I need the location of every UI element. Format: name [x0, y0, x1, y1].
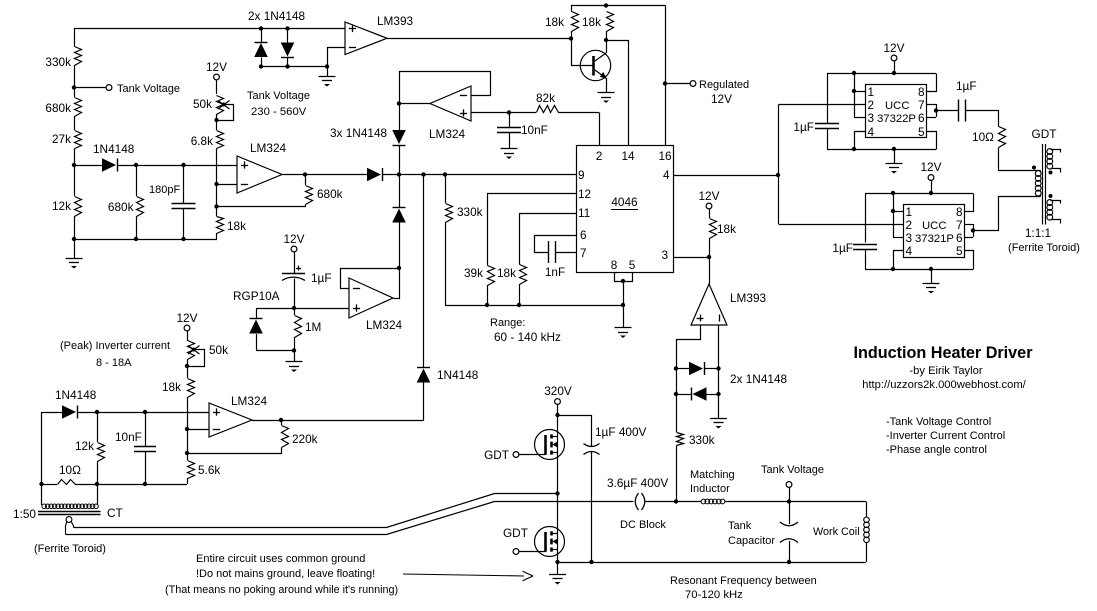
svg-text:3: 3 — [661, 248, 668, 262]
wire pin 11 — [519, 213, 576, 215]
svg-text:1µF: 1µF — [832, 241, 853, 255]
svg-text:1µF 400V: 1µF 400V — [595, 425, 647, 439]
svg-text:Tank Voltage: Tank Voltage — [761, 464, 824, 476]
wire dc block to inductor — [646, 501, 702, 503]
wire U2 pin 5 — [927, 132, 937, 150]
svg-text:1N4148: 1N4148 — [437, 368, 479, 382]
capacitor 180pF — [183, 165, 185, 204]
wire U3 pin 8 — [965, 194, 974, 212]
svg-text:Capacitor: Capacitor — [728, 535, 775, 547]
node vco gnd — [621, 303, 625, 307]
wire U2 pin 4 tie — [855, 132, 866, 150]
IC U4 4046 PLL — [577, 146, 674, 273]
node clamp B bottom — [285, 64, 289, 68]
svg-text:4046: 4046 — [611, 195, 638, 209]
node U1C out — [397, 101, 401, 105]
svg-text:(Ferrite Toroid): (Ferrite Toroid) — [34, 543, 106, 555]
ground (LM393 ref) — [319, 76, 336, 78]
node pb left — [674, 392, 678, 396]
capacitor 1uF (soft start, polarized) — [282, 273, 305, 275]
transformer GDT secondary 1 — [1047, 149, 1053, 155]
wire U1B feedback — [341, 269, 400, 289]
node soft-start — [292, 306, 296, 310]
wire pins 8+5 to ground — [615, 273, 633, 282]
svg-text:1N4148: 1N4148 — [55, 388, 97, 402]
wire U2 outer left + cap — [827, 73, 829, 123]
svg-text:-Inverter Current Control: -Inverter Current Control — [886, 430, 1005, 442]
capacitor 1uF (U2 decoupling) — [815, 123, 839, 125]
capacitor 10nF (sense filter) — [145, 412, 147, 447]
wire peak node row — [74, 165, 102, 167]
potentiometer 50k (tank voltage set) — [217, 96, 224, 115]
node 680k hold top — [134, 163, 138, 167]
wire upper drain — [557, 415, 559, 432]
node 680k feedback join — [214, 204, 218, 208]
svg-text:3: 3 — [906, 231, 913, 245]
svg-text:4: 4 — [906, 244, 913, 258]
node 180pF top — [181, 163, 185, 167]
svg-text:1:1:1: 1:1:1 — [1025, 226, 1051, 240]
svg-text:50k: 50k — [209, 343, 228, 357]
svg-text:18k: 18k — [582, 15, 601, 29]
svg-text:6: 6 — [918, 111, 925, 125]
wire to ground — [718, 394, 720, 418]
node 10nF bottom — [143, 482, 147, 486]
diode 1N4148 (phase pair A) — [676, 368, 689, 370]
svg-text:1µF: 1µF — [311, 271, 332, 285]
wire to U2 input — [779, 104, 866, 106]
wire VCO ground rail — [445, 305, 623, 307]
svg-text:16: 16 — [658, 149, 672, 163]
ground (U2) — [892, 147, 896, 151]
svg-text:!Do not mains ground, leave fl: !Do not mains ground, leave floating! — [196, 568, 375, 580]
ground (Q1) — [598, 92, 615, 94]
wire 12k to ground rail — [74, 216, 76, 258]
svg-text:7: 7 — [956, 218, 963, 232]
op-amp U5A LM393 (regulator comparator) — [345, 22, 387, 55]
svg-text:Inductor: Inductor — [690, 483, 730, 495]
svg-text:39k: 39k — [464, 266, 483, 280]
wire U3 out to GDT primary bottom — [974, 197, 1041, 231]
wire 82k to 4046 pin 2 — [599, 113, 601, 146]
wire top rail left — [75, 29, 346, 47]
resistor 39k (pin12) — [487, 194, 489, 266]
svg-text:70-120 kHz: 70-120 kHz — [685, 589, 743, 601]
resistor 10ohm (CT burden) — [42, 484, 58, 486]
wire 330k to 680k — [74, 65, 76, 97]
svg-text:8: 8 — [611, 258, 618, 272]
svg-text:12k: 12k — [52, 199, 71, 213]
svg-text:3x 1N4148: 3x 1N4148 — [330, 126, 387, 140]
svg-text:11: 11 — [578, 206, 590, 220]
capacitor 1uF (GDT coupling) — [958, 100, 960, 122]
wire U5B plus input — [677, 326, 701, 369]
node 220k tap — [279, 418, 283, 422]
wire U2 output pins 7,6 — [926, 104, 936, 106]
diode 1N4148 (tank peak detect) — [102, 158, 116, 172]
transistor Q1 NPN (regulator pass) — [580, 50, 610, 80]
resistor 18k (bias 2) — [604, 3, 608, 7]
wire CT loop to bridge (top lead) — [74, 494, 558, 528]
svg-text:12V: 12V — [284, 232, 305, 246]
node GDT sec1 phase dot — [1049, 171, 1053, 175]
node pa right — [716, 366, 720, 370]
node tank top — [787, 499, 791, 503]
svg-text:2: 2 — [596, 149, 603, 163]
wire bottom ground bus — [558, 562, 867, 564]
wire 4046 pin 3 row — [673, 257, 709, 259]
svg-text:1: 1 — [906, 205, 913, 219]
capacitor 10nF (phase filter) — [509, 113, 511, 128]
svg-text:UCC: UCC — [922, 220, 946, 232]
svg-text:3.6µF 400V: 3.6µF 400V — [607, 476, 668, 490]
IC U3 UCC37321P gate driver — [904, 205, 965, 258]
svg-text:180pF: 180pF — [149, 184, 180, 196]
op-amp U1C LM324 (phase error amp) — [430, 86, 471, 121]
svg-text:9: 9 — [578, 168, 585, 182]
resistor 6.8k — [216, 114, 218, 130]
diode 1N4148 (OR, from U1B) — [399, 222, 401, 268]
svg-text:18k: 18k — [497, 266, 516, 280]
node bridge output tap — [674, 499, 678, 503]
svg-text:Tank Voltage: Tank Voltage — [117, 83, 180, 95]
svg-text:1µF: 1µF — [793, 120, 814, 134]
wire U3 pin 5 — [965, 251, 974, 270]
node sweep diode join — [421, 172, 425, 176]
svg-text:8 - 18A: 8 - 18A — [96, 357, 132, 369]
node LM393 ref gnd — [325, 64, 329, 68]
resistor 330k (phase sense) — [676, 394, 678, 432]
svg-text:Range:: Range: — [490, 317, 525, 329]
svg-text:4: 4 — [868, 125, 875, 139]
svg-text:1nF: 1nF — [545, 265, 565, 279]
wire opamp A output rail — [282, 174, 367, 176]
wire ct left vertical — [41, 412, 43, 505]
svg-text:12k: 12k — [75, 439, 94, 453]
svg-text:14: 14 — [621, 149, 635, 163]
svg-text:4: 4 — [663, 168, 670, 182]
svg-text:82k: 82k — [536, 91, 555, 105]
wire collector to 4046 pin 14 — [607, 41, 629, 146]
svg-text:18k: 18k — [545, 15, 564, 29]
svg-text:330k: 330k — [689, 433, 715, 447]
wire pin 6 loop — [535, 236, 577, 253]
transistor M2 MOSFET (lower) — [535, 527, 565, 557]
wire 12V rail to pin 16 — [665, 6, 667, 146]
node clamp A top — [259, 26, 263, 30]
svg-text:220k: 220k — [292, 432, 318, 446]
svg-text:5: 5 — [956, 244, 963, 258]
node divider output — [72, 163, 76, 167]
wire to U3 input — [779, 224, 904, 226]
ground (U3) — [929, 267, 933, 271]
node 10nF top — [507, 110, 511, 114]
wire U2 out to cap — [936, 110, 959, 112]
wire pin 7 — [555, 252, 576, 254]
wire U1D minus row — [187, 429, 209, 431]
node collector — [604, 38, 608, 42]
wire ct right vertical — [97, 484, 99, 505]
node base drive — [569, 36, 573, 40]
wire RGP10A ground row — [256, 350, 294, 352]
svg-text:18k: 18k — [162, 380, 181, 394]
wire inductor to tank — [725, 501, 867, 503]
wire U1C plus row — [471, 112, 536, 114]
node 39k bottom — [485, 303, 489, 307]
node ground rail left — [72, 237, 76, 241]
wire current sense row — [42, 412, 63, 414]
node 12k bottom — [95, 482, 99, 486]
wire 18k top rail — [572, 6, 666, 12]
svg-text:Tank: Tank — [728, 520, 752, 532]
wire U2 outer bottom rail — [827, 149, 936, 151]
svg-text:-by Eirik Taylor: -by Eirik Taylor — [909, 365, 982, 377]
wire U1B output — [394, 269, 400, 299]
svg-text:18k: 18k — [717, 222, 736, 236]
wire pin 12 — [487, 193, 576, 195]
svg-text:320V: 320V — [544, 384, 572, 398]
svg-text:5: 5 — [918, 125, 925, 139]
svg-text:LM393: LM393 — [377, 14, 414, 28]
node Tank Voltage tap — [72, 85, 76, 89]
wire U2 pins 1,3 tie — [854, 73, 856, 117]
node U1B fb — [397, 266, 401, 270]
svg-text:Entire circuit uses common gro: Entire circuit uses common ground — [196, 553, 365, 565]
node 680k bottom — [134, 237, 138, 241]
node 180pF bottom — [181, 237, 185, 241]
node 10nF top2 — [143, 410, 147, 414]
svg-text:1M: 1M — [305, 320, 321, 334]
svg-text:Work Coil: Work Coil — [813, 526, 860, 538]
transformer CT core — [38, 511, 101, 513]
svg-text:GDT: GDT — [484, 448, 509, 462]
wire U1D output row — [252, 420, 424, 422]
svg-text:(Peak) Inverter current: (Peak) Inverter current — [60, 340, 170, 352]
svg-text:GDT: GDT — [1032, 127, 1057, 141]
node 18k bottom — [517, 303, 521, 307]
svg-text:10nF: 10nF — [521, 123, 548, 137]
svg-text:50k: 50k — [193, 97, 212, 111]
svg-text:680k: 680k — [45, 101, 71, 115]
svg-text:10Ω: 10Ω — [59, 463, 81, 477]
wire 6.8k to minus node — [216, 149, 218, 217]
node 680k fb top — [303, 172, 307, 176]
node pot2 wiper — [185, 364, 189, 368]
ground (soft start) — [294, 351, 296, 362]
wire CT loop to DC block (bottom lead) — [66, 502, 634, 535]
node pa left — [674, 366, 678, 370]
resistor 12k (tank divider bottom) — [75, 197, 82, 217]
node pot wiper — [214, 118, 218, 122]
svg-text:CT: CT — [107, 506, 123, 520]
svg-text:8: 8 — [956, 205, 963, 219]
node clamp A bottom — [259, 64, 263, 68]
node LM324 A minus — [214, 182, 218, 186]
wire bottom ground rail — [74, 239, 217, 241]
wire base — [572, 39, 593, 66]
node regulated 12V tap — [663, 81, 667, 85]
node source gnd — [555, 560, 559, 564]
node pin3 — [707, 255, 711, 259]
transformer GDT secondary 2 — [1047, 200, 1053, 206]
svg-text:1µF: 1µF — [956, 79, 977, 93]
wire U3 outer bottom rail — [865, 269, 973, 271]
resistor 1M — [294, 308, 296, 315]
resistor 18k (comp) — [217, 217, 224, 234]
svg-text:12: 12 — [578, 187, 591, 201]
svg-text:12V: 12V — [711, 92, 732, 106]
ground (tank divider) — [66, 258, 83, 260]
svg-text:12V: 12V — [884, 41, 905, 55]
svg-text:37321P: 37321P — [915, 233, 954, 245]
node driver split — [776, 173, 780, 177]
svg-text:6.8k: 6.8k — [191, 134, 213, 148]
op-amp U1A LM324 (tank voltage error amp) — [237, 156, 282, 193]
diode 1N4148 (OR, from U1C) — [399, 104, 401, 131]
ground (phase det) — [710, 418, 727, 420]
wire annotation arrow — [403, 574, 524, 576]
wire clamp bottom rail — [261, 66, 327, 68]
svg-text:Resonant Frequency between: Resonant Frequency between — [670, 575, 817, 587]
svg-text:2: 2 — [868, 98, 875, 112]
ground (4046) — [623, 305, 625, 328]
svg-text:680k: 680k — [317, 187, 343, 201]
wire U3 pins 1,3 tie — [893, 193, 895, 237]
wire emitter to ground — [606, 78, 608, 93]
op-amp U5B LM393 (phase comparator) — [691, 284, 727, 325]
svg-text:27k: 27k — [52, 132, 71, 146]
svg-text:Induction Heater Driver: Induction Heater Driver — [853, 344, 1033, 362]
svg-text:7: 7 — [580, 246, 587, 260]
resistor 330k (VCO) — [445, 175, 447, 204]
svg-text:UCC: UCC — [885, 100, 909, 112]
svg-text:3: 3 — [868, 111, 875, 125]
resistor 680k (bleed) — [137, 197, 144, 217]
svg-text:10nF: 10nF — [115, 430, 142, 444]
svg-text:http://uzzors2k.000webhost.com: http://uzzors2k.000webhost.com/ — [862, 379, 1026, 391]
svg-text:8: 8 — [918, 85, 925, 99]
svg-text:Regulated: Regulated — [699, 79, 749, 91]
resistor 5.6k — [187, 453, 189, 460]
wire minus input — [217, 184, 238, 186]
node pb right — [716, 392, 720, 396]
resistor 18k (current set) — [187, 359, 189, 378]
svg-text:5: 5 — [629, 258, 636, 272]
wire U5B output — [709, 257, 711, 284]
wire to bus cap — [558, 416, 592, 447]
wire U3 pin 4 tie — [894, 251, 904, 270]
wire 680k to 27k — [74, 116, 76, 130]
wire U3 output pins 7,6 — [964, 224, 973, 226]
op-amp U1B LM324 (inverter current error amp) — [349, 278, 393, 318]
wire lower source — [557, 555, 559, 563]
resistor 10ohm (gate damp) — [999, 127, 1006, 148]
wire 4046 pin 4 to drivers — [673, 175, 778, 177]
svg-text:2x 1N4148: 2x 1N4148 — [730, 372, 787, 386]
ground (10nF) — [501, 148, 518, 150]
svg-text:-Phase angle control: -Phase angle control — [886, 444, 987, 456]
wire U1C feedback loop — [400, 72, 491, 104]
svg-text:12V: 12V — [206, 60, 227, 74]
wire mid node — [557, 457, 559, 529]
svg-text:330k: 330k — [45, 55, 71, 69]
svg-text:LM324: LM324 — [231, 394, 268, 408]
svg-text:5.6k: 5.6k — [198, 463, 220, 477]
svg-text:330k: 330k — [457, 205, 483, 219]
resistor 12k (sense load) — [97, 412, 99, 442]
svg-text:1N4148: 1N4148 — [93, 142, 135, 156]
svg-text:12V: 12V — [699, 189, 720, 203]
svg-text:LM324: LM324 — [429, 127, 466, 141]
capacitor 1nF (VCO) — [548, 241, 550, 263]
resistor 18k (pullup) — [710, 219, 717, 239]
svg-text:LM324: LM324 — [250, 141, 287, 155]
diode 1N4148 (clamp A) — [261, 29, 263, 43]
wire regulated tap — [665, 83, 690, 85]
node fb bottom — [185, 451, 189, 455]
svg-text:12V: 12V — [921, 160, 942, 174]
wire LM393 output — [387, 38, 571, 40]
wire 27k to node — [74, 149, 76, 197]
node ss ground — [292, 348, 296, 352]
node U1D minus — [185, 427, 189, 431]
potentiometer 50k (current set) — [188, 341, 195, 360]
svg-text:1:50: 1:50 — [13, 507, 36, 521]
svg-text:10Ω: 10Ω — [972, 130, 994, 144]
wire LM393 minus to ground — [328, 48, 346, 77]
svg-text:6: 6 — [956, 231, 963, 245]
node GDT primary phase dot — [1032, 166, 1036, 170]
svg-text:-Tank Voltage Control: -Tank Voltage Control — [886, 416, 991, 428]
wire 10ohm to GDT primary top — [999, 148, 1041, 171]
wire 18k to minus — [187, 397, 189, 453]
wire driver split vertical — [778, 105, 780, 225]
resistor 680k (tank divider) — [75, 98, 82, 117]
resistor 680k (U1A feedback) — [305, 175, 307, 186]
capacitor 1uF (U3 decoupling) — [853, 244, 877, 246]
resistor 330k (tank divider top) — [75, 47, 82, 66]
ground (bridge) — [557, 562, 559, 574]
svg-text:230 - 560V: 230 - 560V — [251, 106, 307, 118]
svg-text:(That means no poking around w: (That means no poking around while it's … — [165, 584, 398, 596]
node GDT sec2 phase dot — [1049, 194, 1053, 198]
node bus cap bottom — [589, 560, 593, 564]
wire U1C output — [399, 103, 430, 105]
transformer CT primary loop — [66, 517, 72, 523]
node 12k top — [95, 410, 99, 414]
IC U2 UCC37322P gate driver — [866, 85, 927, 138]
wire U3 outer left + cap — [865, 193, 867, 243]
svg-text:2: 2 — [906, 218, 913, 232]
wire diode pair verticals — [676, 369, 678, 395]
wire U3 outer top rail — [865, 193, 973, 195]
node clamp B top — [285, 26, 289, 30]
svg-text:1: 1 — [868, 85, 875, 99]
wire U2 pin 8 — [927, 74, 937, 92]
svg-text:60 - 140 kHz: 60 - 140 kHz — [494, 330, 561, 344]
node tank bottom — [787, 560, 791, 564]
svg-text:GDT: GDT — [503, 526, 528, 540]
wire OR rail to 4046 pin 9 — [383, 174, 577, 176]
node 320V split — [555, 413, 559, 417]
resistor 220k (U1D feedback) — [281, 420, 283, 425]
resistor 18k (bias 1) — [572, 12, 579, 32]
svg-text:Matching: Matching — [690, 469, 735, 481]
node bridge mid tap — [555, 491, 559, 495]
svg-text:2x 1N4148: 2x 1N4148 — [248, 9, 305, 23]
wire U1B plus row — [256, 308, 349, 310]
svg-text:6: 6 — [580, 228, 587, 242]
